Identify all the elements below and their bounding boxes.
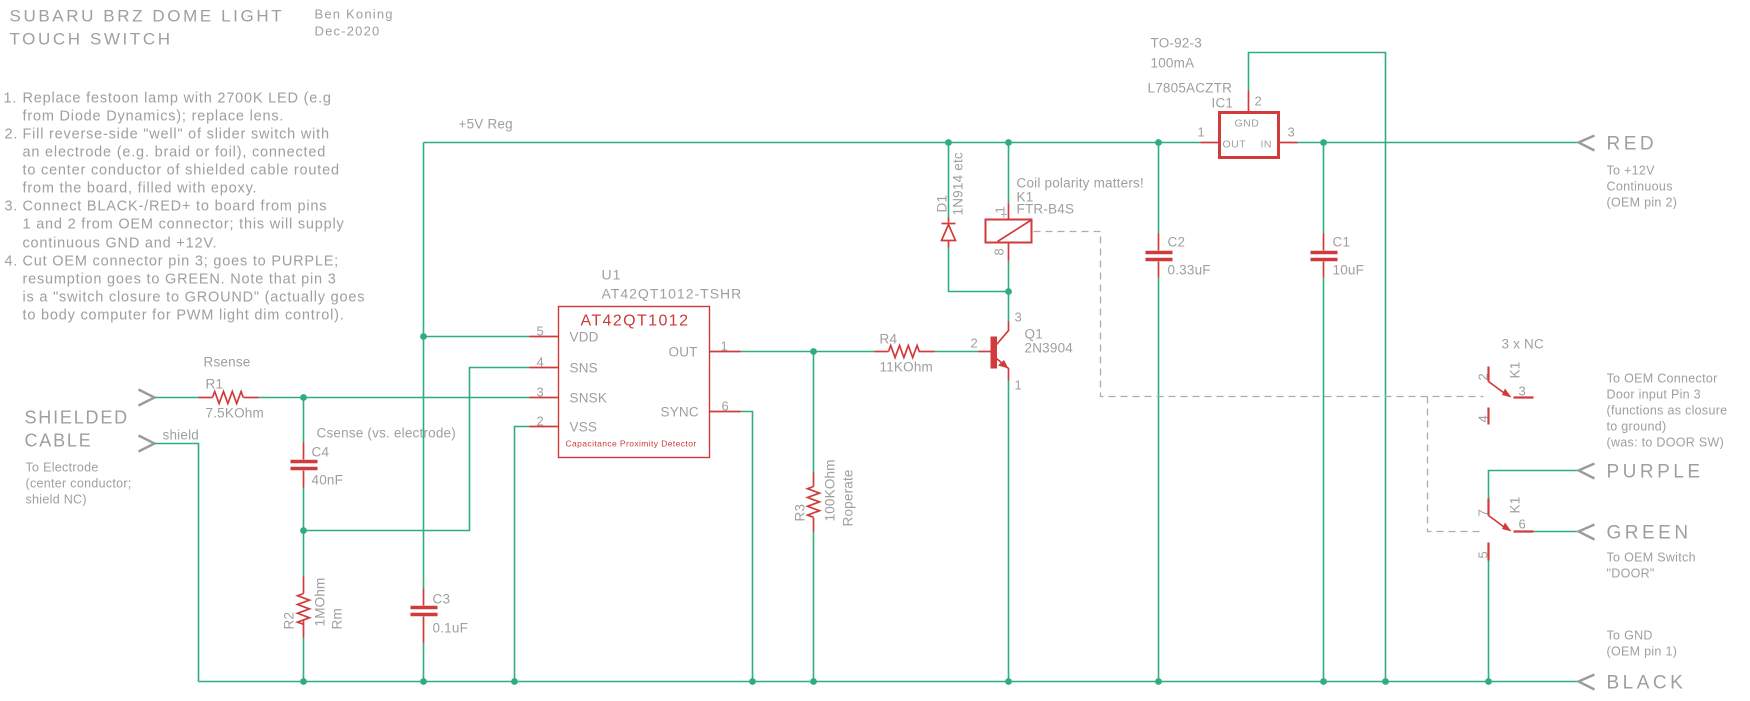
wire R1 to SNSK pin3 [259, 397, 530, 399]
resistor R2 1MOhm Rm [282, 577, 345, 638]
svg-text:from the board, filled with ep: from the board, filled with epoxy. [23, 181, 258, 197]
svg-text:TOUCH SWITCH: TOUCH SWITCH [10, 30, 173, 49]
svg-text:3: 3 [1288, 125, 1296, 140]
svg-text:VSS: VSS [570, 420, 598, 435]
svg-text:2: 2 [537, 414, 545, 429]
junction C3 at ground bus [420, 678, 427, 685]
svg-text:to body computer for PWM light: to body computer for PWM light dim contr… [23, 308, 345, 324]
note above BLACK [1607, 629, 1678, 659]
svg-text:3: 3 [1519, 384, 1527, 399]
svg-text:Door input Pin 3: Door input Pin 3 [1607, 388, 1701, 402]
author block: Ben Koning Dec-2020 [315, 7, 394, 39]
svg-text:(center conductor;: (center conductor; [26, 477, 132, 491]
svg-text:6: 6 [722, 399, 730, 414]
svg-text:SNSK: SNSK [570, 391, 608, 406]
junction SYNC at ground bus [749, 678, 756, 685]
junction K1 pin5 at ground bus [1485, 678, 1492, 685]
svg-text:1MOhm: 1MOhm [313, 577, 328, 626]
svg-text:Rm: Rm [330, 608, 345, 629]
svg-text:1.: 1. [4, 91, 18, 107]
wire +12V rail to C1 [1323, 143, 1325, 234]
svg-text:11KOhm: 11KOhm [880, 360, 933, 375]
svg-text:L7805ACZTR: L7805ACZTR [1148, 81, 1233, 96]
voltage regulator IC1 L7805ACZTR [1148, 36, 1279, 158]
svg-text:(functions as closure: (functions as closure [1607, 404, 1728, 418]
wire relay coil bottom to node [1008, 261, 1010, 292]
svg-text:1N914 etc: 1N914 etc [951, 152, 966, 215]
junction C1 at +12V rail [1320, 139, 1327, 146]
svg-text:Ben Koning: Ben Koning [315, 7, 394, 22]
svg-text:To OEM Connector: To OEM Connector [1607, 372, 1718, 386]
junction OUT-R4-R3 node [810, 348, 817, 355]
svg-text:continuous GND and +12V.: continuous GND and +12V. [23, 236, 218, 252]
svg-text:GND: GND [1235, 118, 1260, 130]
svg-text:5: 5 [537, 324, 545, 339]
svg-text:shield: shield [163, 428, 199, 443]
svg-text:D1: D1 [935, 195, 950, 213]
note under GREEN [1607, 551, 1696, 581]
svg-text:R3: R3 [793, 504, 808, 522]
svg-text:Q1: Q1 [1025, 327, 1043, 342]
relay contact K1 lower (pins 7-6-5) [1476, 497, 1534, 561]
junction C4-R2-SNS node [300, 527, 307, 534]
capacitor C2 0.33uF [1146, 234, 1211, 278]
relay contact K1 upper (pins 2-3-4) [1476, 362, 1534, 425]
svg-text:Replace festoon lamp with 2700: Replace festoon lamp with 2700K LED (e.g [23, 91, 332, 107]
svg-text:Capacitance Proximity Detector: Capacitance Proximity Detector [566, 439, 697, 449]
svg-text:IN: IN [1261, 139, 1273, 151]
svg-text:to ground): to ground) [1607, 420, 1667, 434]
svg-text:(OEM pin 2): (OEM pin 2) [1607, 196, 1678, 210]
svg-text:3.: 3. [5, 199, 19, 215]
svg-text:Cut OEM connector pin 3; goes: Cut OEM connector pin 3; goes to PURPLE; [23, 254, 340, 270]
output port PURPLE arrow [1579, 464, 1595, 479]
svg-text:OUT: OUT [669, 345, 698, 360]
resistor R1 7.5KOhm [199, 355, 264, 421]
svg-text:10uF: 10uF [1333, 263, 1365, 278]
capacitor C4 40nF [291, 426, 456, 488]
svg-text:R2: R2 [282, 612, 297, 630]
svg-text:CABLE: CABLE [25, 431, 93, 451]
U1 pin 5 VDD [530, 324, 599, 345]
junction K1 coil at +5V rail [1005, 139, 1012, 146]
junction Q1 emitter at ground bus [1005, 678, 1012, 685]
svg-text:4: 4 [1476, 415, 1491, 423]
svg-text:7.5KOhm: 7.5KOhm [206, 406, 264, 421]
svg-text:5: 5 [1476, 551, 1491, 559]
svg-text:100KOhm: 100KOhm [823, 459, 838, 521]
wire rail to C2 [1158, 143, 1160, 234]
note: To Electrode (center conductor; shield NC) [26, 461, 132, 507]
svg-text:is a "switch closure to GROUND: is a "switch closure to GROUND" (actuall… [23, 290, 366, 306]
wire OUT pin1 to R4 and node [741, 351, 875, 353]
wire contact pin5 to bus [1488, 561, 1490, 682]
svg-text:VDD: VDD [570, 330, 599, 345]
wire PURPLE port to contact pin7 [1489, 471, 1579, 499]
junction VDD tap on +5V vertical [420, 333, 427, 340]
svg-text:2: 2 [1255, 94, 1263, 109]
junction R1-C4-SNSK node [300, 394, 307, 401]
wire shield run down to ground bus [155, 444, 199, 682]
capacitor C3 0.1uF [411, 589, 469, 643]
svg-text:(was: to DOOR SW): (was: to DOOR SW) [1607, 436, 1725, 450]
output port GREEN arrow [1579, 525, 1595, 540]
svg-text:C1: C1 [1333, 235, 1351, 250]
svg-text:Rsense: Rsense [204, 355, 251, 370]
svg-text:7: 7 [1476, 509, 1491, 517]
svg-text:6: 6 [1519, 517, 1527, 532]
U1 pin 2 VSS [530, 414, 598, 435]
junction R3 at ground bus [810, 678, 817, 685]
wire C4 bottom to node [303, 488, 305, 531]
svg-text:8: 8 [992, 248, 1007, 256]
svg-text:Continuous: Continuous [1607, 180, 1673, 194]
wire IC1 pin3 to RED port [1298, 142, 1579, 144]
capacitor C1 10uF [1311, 234, 1365, 278]
wire contact pin6 to GREEN port [1534, 531, 1579, 533]
svg-text:Csense (vs. electrode): Csense (vs. electrode) [317, 426, 456, 441]
svg-text:Connect BLACK-/RED+ to board f: Connect BLACK-/RED+ to board from pins [23, 199, 328, 215]
svg-text:SUBARU BRZ DOME LIGHT: SUBARU BRZ DOME LIGHT [10, 7, 285, 26]
svg-text:2N3904: 2N3904 [1025, 341, 1074, 356]
svg-text:2: 2 [1476, 373, 1491, 381]
svg-text:OUT: OUT [1223, 139, 1247, 151]
svg-text:3 x NC: 3 x NC [1502, 337, 1545, 352]
svg-text:2: 2 [971, 336, 979, 351]
svg-text:0.1uF: 0.1uF [433, 621, 469, 636]
svg-text:SHIELDED: SHIELDED [25, 408, 129, 428]
diode D1 1N914 [935, 152, 966, 247]
svg-text:AT42QT1012: AT42QT1012 [581, 313, 690, 330]
svg-text:U1: U1 [602, 267, 622, 283]
svg-text:To Electrode: To Electrode [26, 461, 99, 475]
svg-text:GREEN: GREEN [1607, 523, 1692, 544]
junction D1-K1 coil-Q1 collector [1005, 288, 1012, 295]
wire IC1 pin2 GND loop to bus [1249, 53, 1386, 682]
svg-text:R1: R1 [206, 377, 224, 392]
wire C2 bottom to bus [1158, 278, 1160, 682]
junction C1 at ground bus [1320, 678, 1327, 685]
svg-text:100mA: 100mA [1151, 56, 1195, 71]
svg-text:AT42QT1012-TSHR: AT42QT1012-TSHR [602, 286, 743, 302]
svg-text:2.: 2. [5, 127, 19, 143]
op-amp U1 AT42QT1012-TSHR box [559, 267, 743, 458]
svg-text:an electrode (e.g. braid or fo: an electrode (e.g. braid or foil), conne… [23, 145, 327, 161]
wire node down to R2 [303, 531, 305, 577]
wire R1 node down to C4 [303, 398, 305, 443]
wire D1 bottom to Q1 collector node [949, 248, 1009, 292]
svg-text:R4: R4 [880, 332, 898, 347]
U1 pin 4 SNS [530, 355, 598, 376]
svg-text:(OEM pin 1): (OEM pin 1) [1607, 645, 1678, 659]
svg-text:1: 1 [1015, 378, 1023, 393]
svg-text:K1: K1 [1508, 497, 1523, 514]
wire VDD branch [424, 336, 530, 338]
IC1 pin 1 OUT stub [1198, 125, 1220, 143]
wire SYNC pin6 down to bus [741, 412, 753, 682]
wire left vertical +5V down to VDD and C3 [423, 143, 425, 589]
svg-text:Dec-2020: Dec-2020 [315, 24, 381, 39]
svg-text:SNS: SNS [570, 361, 598, 376]
svg-text:to center conductor of shielde: to center conductor of shielded cable ro… [23, 163, 340, 179]
svg-text:from Diode Dynamics); replace: from Diode Dynamics); replace lens. [23, 109, 285, 125]
transistor Q1 2N3904 [971, 310, 1074, 393]
dashed mechanical link from relay coil to contacts [1034, 232, 1484, 397]
relay coil K1 FTR-B4S [986, 176, 1144, 261]
svg-text:BLACK: BLACK [1607, 673, 1687, 694]
svg-text:PURPLE: PURPLE [1607, 462, 1704, 483]
wire Q1 emitter to bus [1008, 381, 1010, 682]
svg-text:4: 4 [537, 355, 545, 370]
svg-text:To +12V: To +12V [1607, 164, 1656, 178]
svg-text:1: 1 [721, 339, 729, 354]
svg-text:C3: C3 [433, 592, 451, 607]
junction C2 at +5V rail [1155, 139, 1162, 146]
svg-text:To OEM Switch: To OEM Switch [1607, 551, 1696, 565]
output port RED arrow [1579, 136, 1595, 151]
output port BLACK arrow [1579, 675, 1595, 690]
svg-text:Fill reverse-side "well" of sl: Fill reverse-side "well" of slider switc… [23, 127, 330, 143]
svg-text:C2: C2 [1168, 235, 1186, 250]
svg-text:1: 1 [993, 206, 1008, 214]
svg-text:To GND: To GND [1607, 629, 1653, 643]
svg-text:"DOOR": "DOOR" [1607, 567, 1655, 581]
junction IC1 GND return at ground bus [1382, 678, 1389, 685]
IC1 pin 3 IN stub [1279, 125, 1298, 143]
svg-text:RED: RED [1607, 134, 1658, 155]
junction VSS at ground bus [511, 678, 518, 685]
wire VSS pin2 down to bus [515, 427, 530, 682]
wire R2 bottom to bus [303, 638, 305, 682]
svg-text:IC1: IC1 [1212, 96, 1234, 111]
wire +5V rail from corner to IC1 pin1 [424, 142, 1201, 144]
svg-text:0.33uF: 0.33uF [1168, 263, 1211, 278]
svg-text:40nF: 40nF [312, 473, 344, 488]
svg-text:1: 1 [1198, 125, 1206, 140]
input port arrow (shield) [139, 436, 155, 452]
wire rail to relay coil top [1008, 143, 1010, 204]
U1 pin 1 OUT [669, 339, 741, 360]
svg-text:SYNC: SYNC [661, 405, 699, 420]
note beside contact [1607, 372, 1728, 450]
svg-text:1 and 2 from OEM connector; th: 1 and 2 from OEM connector; this will su… [23, 217, 345, 233]
U1 pin 3 SNSK [530, 385, 608, 406]
svg-text:4.: 4. [5, 254, 19, 270]
junction D1 at +5V rail [945, 139, 952, 146]
wire R4 to Q1 base [935, 351, 979, 353]
wire node to SNS pin4 [304, 368, 530, 531]
IC1 pin 2 GND stub [1249, 91, 1263, 113]
svg-text:+5V Reg: +5V Reg [459, 117, 513, 132]
wire R3 bottom to bus [813, 532, 815, 682]
label SHIELDED CABLE [25, 408, 129, 451]
svg-text:3: 3 [537, 385, 545, 400]
dashed link branch to second contact [1428, 397, 1484, 532]
input port arrow (center conductor) [139, 390, 155, 406]
svg-text:Coil polarity matters!: Coil polarity matters! [1017, 176, 1144, 191]
svg-text:Roperate: Roperate [841, 469, 856, 526]
svg-text:3: 3 [1015, 310, 1023, 325]
svg-text:shield NC): shield NC) [26, 493, 87, 507]
wire OUT node down to R3 [813, 352, 815, 473]
svg-text:K1: K1 [1508, 362, 1523, 379]
wire C3 bottom to ground bus [423, 643, 425, 682]
svg-text:resumption goes to GREEN. Note: resumption goes to GREEN. Note that pin … [23, 272, 337, 288]
title: SUBARU BRZ DOME LIGHT TOUCH SWITCH [10, 7, 285, 49]
svg-text:TO-92-3: TO-92-3 [1151, 36, 1202, 51]
wire node to Q1 collector [1008, 292, 1010, 322]
wire C1 bottom to bus [1323, 278, 1325, 682]
svg-text:FTR-B4S: FTR-B4S [1017, 202, 1075, 217]
U1 pin 6 SYNC [661, 399, 741, 420]
ground bus bottom [199, 681, 1579, 683]
svg-text:C4: C4 [312, 445, 330, 460]
wire input to R1 [155, 397, 199, 399]
junction R2 at ground bus [300, 678, 307, 685]
note under RED [1607, 164, 1678, 210]
notes list 1-4 [4, 91, 366, 324]
wire rail to D1 top [948, 143, 950, 218]
resistor R3 100KOhm Roperate [793, 459, 856, 531]
resistor R4 11KOhm [875, 332, 935, 375]
junction C2 at ground bus [1155, 678, 1162, 685]
